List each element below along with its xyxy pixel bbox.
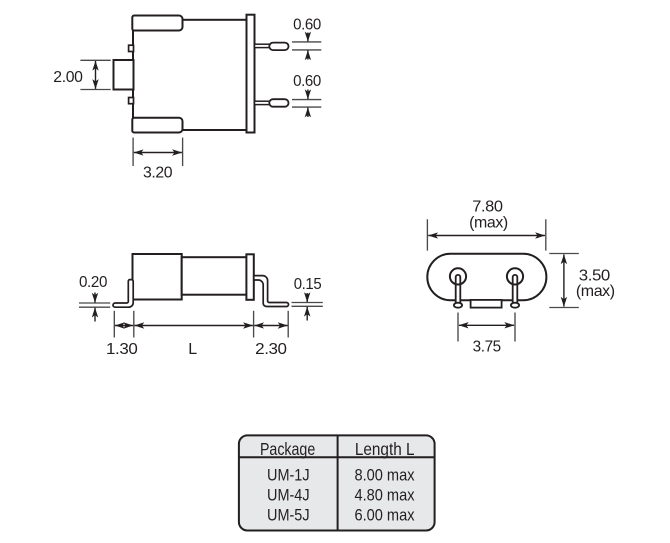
dimension 2.00 (left)	[53, 60, 110, 89]
svg-text:UM-4J: UM-4J	[267, 486, 310, 504]
dimension 3.20 (bottom)	[133, 138, 183, 182]
right bent lead	[254, 276, 289, 307]
bottom pin pill end	[269, 99, 288, 107]
bottom pin thin lead	[255, 101, 271, 104]
body can outline	[133, 20, 247, 130]
svg-text:6.00 max: 6.00 max	[354, 507, 415, 525]
top pin pill end	[269, 43, 288, 51]
svg-text:4.80 max: 4.80 max	[354, 486, 415, 504]
left pin foot ellipse	[454, 303, 462, 308]
svg-text:L: L	[188, 341, 197, 358]
table background	[239, 435, 435, 530]
small bump upper on left edge	[129, 45, 134, 51]
svg-text:0.20: 0.20	[79, 274, 107, 291]
dimension 3.75 bottom	[458, 313, 515, 356]
bottom-left tab	[132, 118, 182, 133]
svg-text:8.00 max: 8.00 max	[354, 466, 415, 484]
svg-text:3.50: 3.50	[579, 267, 611, 284]
svg-text:0.60: 0.60	[293, 17, 321, 34]
dimension 0.15 (right)	[292, 276, 323, 321]
left bent lead	[113, 280, 133, 308]
svg-text:UM-5J: UM-5J	[267, 507, 310, 525]
right pin stem	[513, 275, 518, 305]
svg-text:3.20: 3.20	[143, 164, 173, 181]
svg-text:Length L: Length L	[355, 439, 415, 459]
stadium outline	[427, 254, 546, 300]
left pin outer circle	[450, 268, 466, 284]
header separator line	[239, 456, 435, 458]
right pin foot ellipse	[511, 303, 519, 308]
can section	[182, 257, 247, 295]
top-left tab	[132, 16, 182, 31]
dimension 0.60 (top pin)	[292, 17, 321, 60]
svg-text:0.60: 0.60	[293, 73, 321, 90]
dimension 0.60 (bottom pin)	[292, 73, 321, 117]
left seal protrusion	[114, 60, 134, 90]
right pin outer circle	[507, 268, 523, 284]
left pin stem	[456, 275, 461, 305]
column separator line	[337, 435, 339, 530]
svg-text:(max): (max)	[469, 215, 508, 232]
dimension 7.80 (max) top	[427, 198, 545, 250]
small bump lower on left edge	[129, 98, 134, 104]
top pin thin lead	[255, 44, 271, 47]
dimension 3.50 (max) right	[549, 254, 614, 308]
svg-text:UM-1J: UM-1J	[267, 466, 310, 484]
svg-text:0.15: 0.15	[294, 276, 322, 293]
dimension 0.20 (left)	[79, 274, 110, 322]
svg-text:7.80: 7.80	[472, 198, 503, 215]
svg-text:(max): (max)	[576, 283, 615, 300]
left block of body	[133, 254, 182, 300]
svg-text:2.00: 2.00	[53, 69, 83, 86]
svg-text:3.75: 3.75	[473, 339, 502, 356]
svg-text:Package: Package	[260, 439, 315, 459]
svg-text:2.30: 2.30	[255, 341, 287, 358]
flange	[246, 254, 253, 299]
right flange plate	[247, 15, 255, 133]
bottom dimensions 1.30 / L / 2.30	[106, 311, 288, 358]
svg-text:1.30: 1.30	[106, 341, 138, 358]
base notch rectangle	[471, 300, 502, 308]
